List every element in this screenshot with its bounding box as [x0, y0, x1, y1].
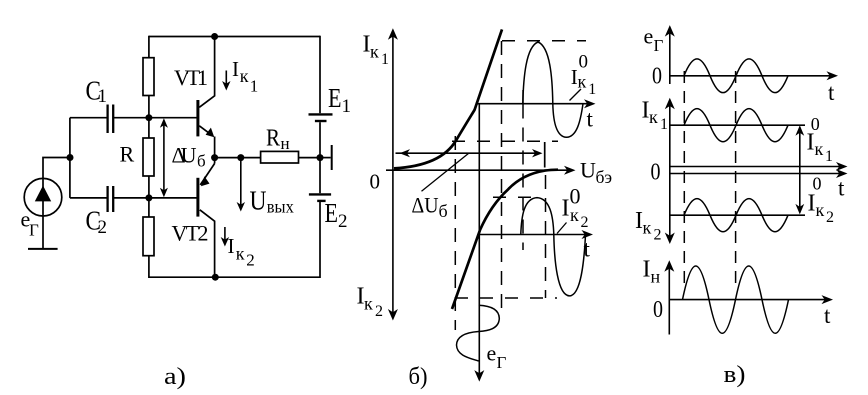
svg-text:в): в): [724, 362, 746, 388]
svg-text:вых: вых: [267, 197, 294, 217]
svg-text:б: б: [197, 152, 206, 171]
svg-text:0: 0: [653, 297, 663, 323]
wire E1 to mid node: [319, 122, 321, 157]
battery E2 short plate: [317, 200, 325, 202]
battery E1 short plate: [315, 120, 327, 122]
svg-text:I: I: [562, 196, 570, 222]
axis eГ vertical: [669, 30, 671, 84]
leader line Ik1 0: [570, 89, 582, 101]
svg-text:к: к: [240, 66, 249, 86]
wire output node to VT2 emitter: [214, 158, 216, 164]
resistor Rn (body): [261, 151, 299, 163]
battery E2 long plate: [309, 193, 331, 195]
dashed line quiescent Ik2 level: [493, 196, 531, 198]
node output (emitters junction): [211, 154, 218, 161]
node base VT1 / C1 / R junction: [145, 114, 152, 121]
axis Ik vertical: [392, 33, 394, 315]
svg-text:ΔU: ΔU: [412, 193, 439, 218]
svg-text:1: 1: [98, 86, 108, 107]
node bottom rail / VT2 collector junction: [212, 274, 219, 281]
wire C2 to VT2 base node: [114, 197, 197, 199]
node source tap junction: [67, 154, 74, 161]
wire output node to Rn: [215, 157, 261, 159]
svg-text:1: 1: [825, 148, 833, 165]
transfer curve VT2: [452, 170, 558, 309]
sine Ik1 waveform: [684, 109, 788, 142]
wire VT1 base node to R: [148, 118, 150, 138]
wire C1 to VT1 base node: [114, 117, 197, 119]
transistor VT1 emitter arrowhead: [206, 128, 215, 138]
svg-text:U: U: [250, 186, 267, 216]
svg-text:2: 2: [338, 211, 348, 232]
svg-text:к: к: [649, 107, 658, 127]
axis t Ik2 sine: [479, 234, 588, 236]
svg-text:к: к: [815, 139, 824, 159]
resistor upper bias (body): [143, 58, 154, 96]
voltage arrow Uvyh: [240, 158, 242, 205]
svg-text:I: I: [228, 234, 235, 258]
measure arrow Ik1-0 Ik2-0: [799, 127, 801, 213]
transistor VT1 collector lead: [199, 37, 214, 108]
dashed vertical left box edge: [454, 136, 456, 330]
axis Ik1 Ik2 vertical: [669, 103, 671, 240]
capacitor C1 plate right: [112, 105, 114, 134]
svg-text:а): а): [164, 364, 186, 390]
svg-text:к: к: [643, 218, 652, 238]
axis 0 upper with arrow: [670, 166, 841, 168]
svg-text:VT2: VT2: [172, 221, 209, 246]
svg-text:1: 1: [588, 81, 596, 98]
svg-text:0: 0: [652, 64, 662, 90]
svg-text:I: I: [807, 130, 815, 156]
svg-text:t: t: [838, 176, 845, 201]
terminal bar of source: [28, 248, 58, 250]
svg-text:2: 2: [581, 214, 589, 231]
svg-text:1: 1: [381, 51, 389, 68]
dashed vertical center: [501, 41, 503, 316]
svg-text:E: E: [328, 83, 342, 113]
svg-text:R: R: [266, 126, 280, 152]
terminator bar dU6 span: [544, 142, 546, 168]
svg-text:бэ: бэ: [596, 167, 613, 187]
dashed vertical right box edge: [545, 175, 547, 298]
capacitor C2 plate right: [112, 186, 114, 212]
svg-text:I: I: [232, 57, 239, 81]
svg-text:1: 1: [660, 116, 668, 133]
wire bottom rail: [149, 276, 320, 278]
svg-text:Г: Г: [654, 36, 664, 55]
sine eГ input: [457, 305, 500, 361]
svg-text:2: 2: [98, 217, 108, 238]
dashed vertical sync 2: [735, 71, 737, 291]
source eГ circle: [24, 178, 62, 216]
svg-text:0: 0: [651, 160, 661, 186]
capacitor C2 plate left: [106, 186, 108, 212]
svg-text:I: I: [643, 257, 651, 283]
node Uvyh tap: [237, 154, 244, 161]
transfer curve VT1: [394, 29, 502, 168]
capacitor C2 left lead wire: [70, 197, 107, 199]
axis In vertical: [668, 265, 670, 335]
svg-text:к: к: [236, 244, 245, 264]
wire source bottom lead: [42, 216, 44, 249]
svg-text:t: t: [828, 80, 835, 105]
sine In waveform: [683, 266, 789, 333]
svg-text:VT1: VT1: [174, 65, 208, 90]
dashed vertical sine start lower: [522, 105, 524, 251]
line Ik1 level: [670, 124, 805, 126]
capacitor C1 plate left: [106, 105, 108, 134]
svg-text:1: 1: [250, 77, 258, 96]
axis t eГ waveform: [670, 75, 832, 77]
terminal bar mid tap: [331, 145, 333, 170]
wire R to VT2 base node: [148, 176, 150, 198]
svg-text:e: e: [644, 24, 654, 49]
capacitor C1 left lead wire: [70, 117, 107, 119]
svg-text:I: I: [808, 191, 816, 217]
dashed vertical sync 1: [683, 71, 685, 291]
svg-text:к: к: [570, 205, 579, 225]
source eГ arrow: [35, 186, 51, 202]
wire left vertical (source to coupling caps): [69, 118, 71, 198]
resistor lower bias (body): [143, 217, 154, 256]
wire E2 to bottom rail: [319, 202, 321, 278]
transistor VT2 emitter lead: [200, 164, 214, 185]
measure arrow dU6 span: [396, 152, 540, 154]
wire right rail to E1: [319, 36, 321, 114]
sine Ik2 waveform: [684, 199, 788, 232]
wire Rn to battery mid node: [299, 157, 321, 159]
svg-text:t: t: [824, 303, 831, 328]
sine Ik1 output: [523, 42, 583, 137]
svg-text:0: 0: [579, 52, 589, 73]
svg-text:к: к: [370, 42, 379, 62]
svg-text:Г: Г: [29, 221, 39, 240]
vertical line sine start: [522, 90, 524, 105]
leader line Ik2 0: [557, 223, 567, 234]
wire VT2 base node to lower bias resistor: [148, 198, 150, 217]
svg-text:U: U: [580, 158, 596, 183]
svg-text:б): б): [409, 364, 428, 390]
transistor VT2 emitter arrowhead: [201, 176, 210, 186]
svg-text:e: e: [487, 341, 497, 366]
current arrow Ik1: [225, 71, 227, 85]
svg-text:к: к: [578, 72, 587, 92]
svg-text:R: R: [120, 142, 135, 167]
svg-text:2: 2: [654, 227, 662, 244]
node top rail / VT1 collector junction: [211, 33, 218, 40]
dashed line quiescent Ik1 level: [452, 140, 558, 142]
axis U63 horizontal: [386, 169, 569, 171]
axis 0 lower with arrow: [670, 173, 841, 175]
svg-text:к: к: [364, 294, 373, 314]
leader line dU6: [422, 153, 469, 191]
wire source top lead: [43, 158, 70, 179]
current arrow Ik2: [224, 227, 226, 240]
svg-text:н: н: [281, 134, 290, 153]
svg-text:2: 2: [375, 303, 383, 320]
axis eГ vertical time: [478, 104, 480, 375]
svg-text:0: 0: [370, 170, 381, 194]
measure arrow dU6 double-headed: [163, 124, 165, 192]
transistor VT2 base bar: [196, 178, 199, 217]
svg-text:Г: Г: [497, 353, 507, 372]
wire VT1 emitter to output node: [214, 137, 216, 158]
node base VT2 / C2 / R junction: [145, 194, 152, 201]
axis t In waveform: [669, 299, 826, 301]
sine Ik2 output: [521, 198, 586, 296]
dashed line bottom box: [455, 297, 557, 299]
svg-text:t: t: [587, 107, 594, 132]
svg-text:2: 2: [246, 251, 255, 270]
svg-text:1: 1: [342, 96, 352, 117]
transistor VT2 collector lead: [200, 210, 215, 277]
battery E1 long plate: [309, 113, 333, 115]
svg-text:E: E: [325, 198, 339, 228]
line Ik2 level: [670, 214, 805, 216]
svg-text:2: 2: [826, 209, 834, 226]
wire mid node to E2: [319, 158, 321, 194]
resistor R (body): [143, 138, 154, 176]
svg-text:ΔU: ΔU: [172, 143, 197, 168]
svg-text:н: н: [651, 267, 661, 287]
transistor VT1 base bar: [196, 100, 199, 136]
node battery mid tap: [317, 154, 324, 161]
wire top-left drop to upper bias resistor: [148, 36, 150, 58]
transistor VT1 emitter lead: [199, 126, 212, 136]
dashed line Ik1 peak level: [502, 40, 586, 42]
wire lower bias resistor to bottom rail: [148, 256, 150, 278]
svg-text:б: б: [439, 201, 448, 221]
wire mid tap stub: [320, 157, 331, 159]
axis t Ik1 sine: [476, 103, 590, 105]
svg-text:к: к: [816, 200, 825, 220]
wire upper bias resistor to node base VT1: [148, 96, 150, 118]
sine eГ waveform: [684, 59, 788, 93]
wire top rail: [149, 36, 320, 38]
